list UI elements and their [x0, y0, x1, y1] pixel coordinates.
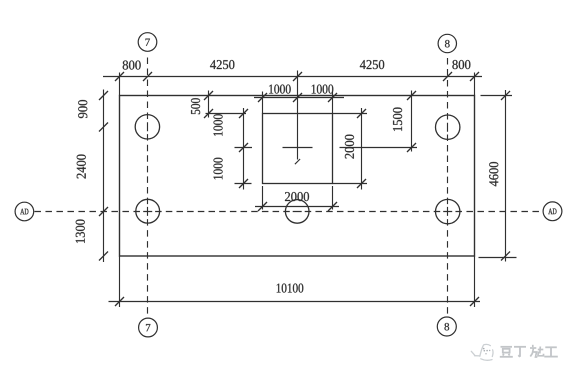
- dim text 1000 left lower rotated: [214, 158, 223, 180]
- grid bubble AD right: [543, 202, 562, 221]
- dim text 4250 top-right: [360, 60, 384, 69]
- dim text 2000 bottom: [285, 192, 309, 201]
- extension opening-top level left: [206, 113, 247, 115]
- grid bubble 8 top: [438, 34, 456, 52]
- tick 500 bottom: [204, 109, 213, 118]
- tick 4600 top: [501, 91, 510, 100]
- left dimension chain line: [103, 90, 105, 263]
- tick left chain AD row: [99, 207, 108, 216]
- bottom 2000 dimension line: [255, 206, 339, 208]
- pile circle mid-left: [136, 199, 160, 223]
- extension above opening left corner: [262, 92, 264, 114]
- extension 4600 bottom: [479, 257, 517, 259]
- tick top dim left end: [115, 72, 124, 81]
- tick left chain rect top: [99, 91, 108, 100]
- left 1000 chain line: [243, 108, 245, 190]
- bottom 10100 dimension line: [109, 301, 481, 303]
- dim text 4600 rotated: [489, 162, 498, 186]
- axis line AD horizontal dashed: [34, 211, 539, 213]
- opening center cross horizontal: [283, 147, 313, 149]
- bottom 10100 extension right: [474, 256, 476, 307]
- tick left chain pile row: [99, 123, 108, 132]
- bubble text 7 bottom: [146, 324, 150, 331]
- watermark text shi: [530, 345, 544, 357]
- dim text 900 rotated: [78, 100, 87, 118]
- tick 10100 left: [115, 297, 124, 306]
- 4600 chain line: [505, 90, 507, 262]
- dim text 800 top-right: [452, 60, 470, 69]
- main foundation outline rectangle: [120, 96, 475, 257]
- dim text 2400 rotated: [77, 155, 86, 179]
- tick 1500 top: [407, 91, 416, 100]
- 1500 chain line: [411, 91, 413, 152]
- tick left chain bottom: [239, 179, 248, 188]
- tick 1000 dim right: [328, 93, 337, 102]
- dim text 1000 upper-right: [312, 85, 334, 94]
- extension above right corner: [474, 73, 476, 96]
- dim text 1500 rotated: [393, 108, 402, 131]
- dim text 1000 left upper rotated: [214, 114, 223, 136]
- extension opening-center level right: [340, 147, 418, 149]
- tick left chain top: [239, 109, 248, 118]
- opening centerline vertical: [297, 71, 299, 160]
- pile circle top-left: [135, 115, 159, 139]
- tick top dim right end: [470, 72, 479, 81]
- bubble text 8 bottom: [445, 323, 450, 330]
- bubble text 8 top: [445, 40, 450, 47]
- 500 dimension chain line: [208, 91, 210, 118]
- bottom 10100 extension left: [119, 256, 121, 307]
- extension above opening right corner: [332, 92, 334, 114]
- extension opening-bottom level right: [333, 183, 368, 185]
- bubble text 7 top: [146, 39, 150, 46]
- dim text 1000 upper-left: [269, 85, 291, 94]
- bubble text AD left: [20, 209, 28, 215]
- watermark text dou: [500, 347, 513, 357]
- tick 10100 right: [470, 297, 479, 306]
- axis line 7 vertical dashed: [147, 58, 149, 314]
- 2000 right chain line: [361, 108, 363, 190]
- tick 500 top: [204, 91, 213, 100]
- tick 2000 chain top: [357, 109, 366, 118]
- pile circle top-right: [436, 115, 460, 139]
- stub at chain B bottom: [235, 183, 252, 185]
- top dimension line: [103, 76, 482, 78]
- extension opening-top level right: [333, 113, 368, 115]
- tick 2000 chain bottom: [357, 179, 366, 188]
- grid bubble 7 bottom: [139, 318, 158, 337]
- bottom 2000 extension left: [262, 186, 264, 210]
- extension 4600 top: [481, 95, 513, 97]
- tick left chain rect bottom: [99, 252, 108, 261]
- dim text 800 top-left: [123, 61, 141, 70]
- stub at chain B middle: [235, 147, 253, 149]
- dim text 4250 top-left: [210, 60, 234, 69]
- tick 1500 bottom: [407, 143, 416, 152]
- watermark logo sketch: [471, 344, 493, 360]
- dim text 2000 right chain rotated: [345, 135, 354, 159]
- watermark text gong: [544, 347, 558, 356]
- grid bubble AD left: [15, 202, 34, 221]
- extension above left corner: [119, 73, 121, 96]
- tick bottom 2000 left: [258, 202, 267, 211]
- tick 1000 dim left: [258, 93, 267, 102]
- pile circle bottom-center: [285, 200, 309, 224]
- bubble text AD right: [548, 209, 556, 215]
- axis line 8 vertical dashed: [447, 58, 449, 314]
- watermark text ding: [514, 347, 526, 357]
- tick top dim center: [293, 72, 302, 81]
- tick 4600 bottom: [501, 252, 510, 261]
- tick left chain middle: [239, 143, 248, 152]
- grid bubble 7 top: [138, 33, 157, 52]
- opening center cross end tick: [295, 159, 300, 164]
- central opening square: [263, 114, 333, 184]
- bottom 2000 extension right: [332, 186, 334, 210]
- pile circle mid-right: [436, 199, 460, 223]
- grid bubble 8 bottom: [437, 317, 456, 336]
- tick top dim axis 7: [143, 72, 152, 81]
- dim text 1300 rotated: [76, 220, 85, 243]
- tick 1000 dim center: [293, 93, 302, 102]
- dim text 500 rotated: [191, 98, 200, 114]
- tick top dim axis 8: [443, 72, 452, 81]
- dim text 10100 bottom: [277, 284, 304, 293]
- tick bottom 2000 right: [328, 202, 337, 211]
- opening top dimension line: [254, 97, 344, 99]
